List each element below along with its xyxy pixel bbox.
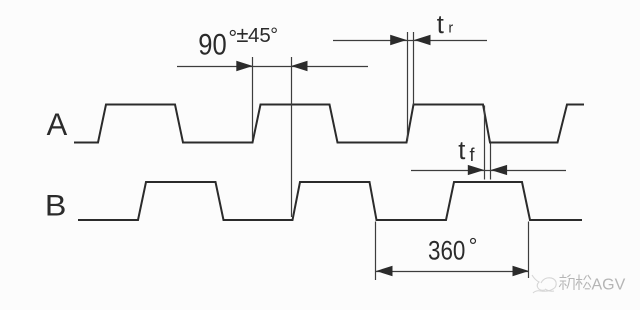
label 90deg value [198,22,278,62]
extension line tf fall end [490,144,492,180]
dimension 90deg line [177,66,368,68]
dimension tf left arrow [468,165,485,175]
watermark swan logo [532,275,556,293]
waveform A [74,105,584,143]
svg-text:B: B [45,190,67,223]
label 360deg value [428,234,477,266]
dimension 360deg left arrow [376,266,393,276]
dimension tf right arrow [491,165,508,175]
extension line A rising edge for 90deg [252,57,254,140]
watermark text xin [559,275,574,291]
dimension tr line [333,40,487,42]
waveform B [78,182,582,220]
svg-text:°: ° [270,24,278,46]
extension line tf fall start [484,106,486,180]
extension line B fall 1 for 360deg [375,222,377,281]
dimension 90deg right arrow [291,61,308,71]
dimension tr right arrow [414,35,431,45]
watermark text song [576,275,591,291]
svg-text:r: r [448,21,453,37]
svg-text:A: A [47,106,68,142]
dimension 360deg right arrow [513,266,530,276]
label tf [458,137,475,165]
svg-text:t: t [458,137,465,165]
extension line tr rise start [407,32,409,141]
watermark text AGV [592,277,626,294]
svg-text:360: 360 [428,236,465,266]
svg-text:90: 90 [198,28,226,61]
extension line tr rise end [413,32,415,105]
dimension tr left arrow [390,35,407,45]
extension line B rising edge for 90deg [291,57,293,217]
dimension 90deg left arrow [236,61,253,71]
dimension 360deg line [376,271,529,273]
channel label B [45,190,67,223]
dimension tf line [411,170,566,172]
svg-text:±: ± [236,22,248,47]
svg-text:t: t [437,11,444,39]
svg-text:AGV: AGV [592,277,626,294]
svg-text:°: ° [469,234,478,259]
svg-text:45: 45 [248,24,271,47]
extension line B fall 2 for 360deg [528,222,530,279]
channel label A [47,106,68,142]
label tr [437,11,454,39]
